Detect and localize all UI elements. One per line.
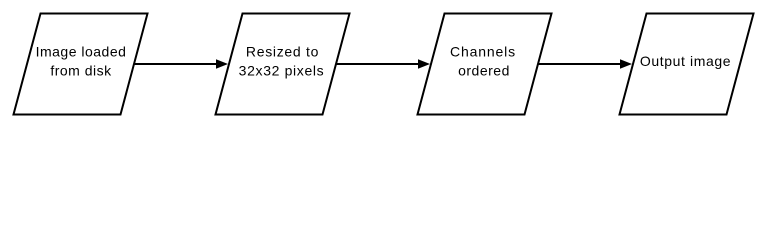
svg-text:Channels: Channels bbox=[450, 44, 516, 60]
svg-text:ordered: ordered bbox=[458, 63, 510, 79]
svg-text:Output image: Output image bbox=[640, 53, 731, 69]
svg-text:from disk: from disk bbox=[50, 63, 112, 79]
svg-text:Resized to: Resized to bbox=[246, 44, 319, 60]
svg-text:Image loaded: Image loaded bbox=[36, 44, 127, 60]
svg-text:32x32 pixels: 32x32 pixels bbox=[239, 63, 325, 79]
